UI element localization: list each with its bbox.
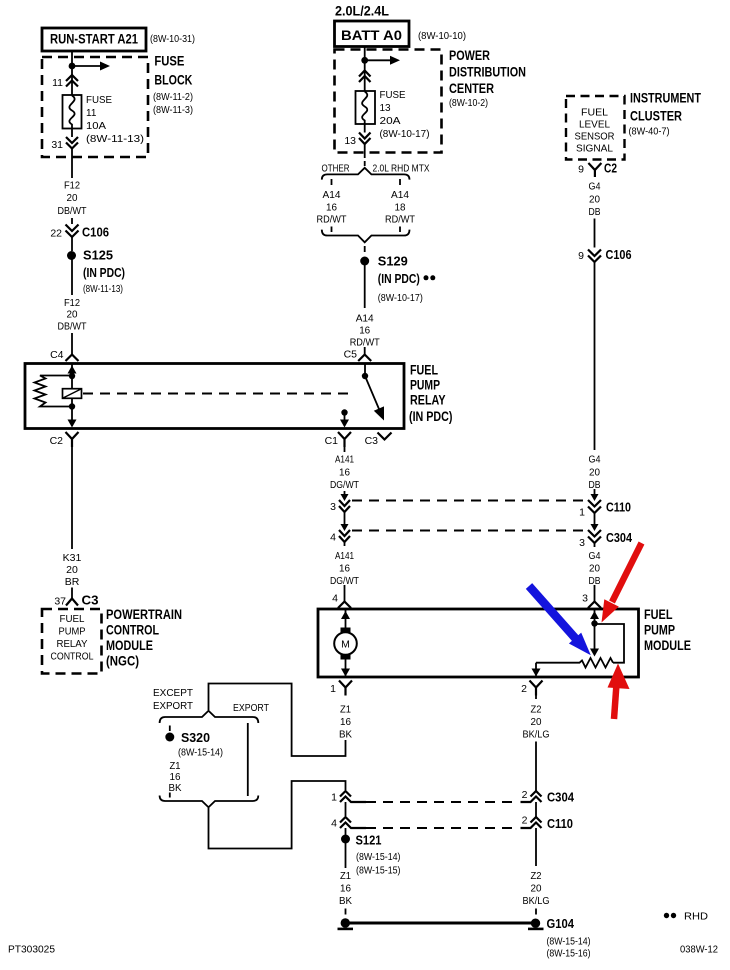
connector C106 chevrons left	[66, 225, 79, 238]
svg-text:RELAY: RELAY	[410, 393, 446, 408]
sensor return arrow down	[532, 663, 541, 677]
splice S320 dot	[165, 733, 174, 742]
label PT303025	[8, 945, 55, 956]
label C106 left	[82, 225, 109, 240]
sensor wiper arrow	[590, 624, 599, 657]
svg-text:MODULE: MODULE	[644, 638, 691, 653]
svg-text:BR: BR	[65, 576, 80, 588]
red annotation arrow to sensor feed	[602, 543, 642, 623]
label G104	[547, 916, 591, 960]
branch dash right lower	[399, 227, 401, 233]
label C2 relay	[50, 435, 64, 447]
relay actuation dashed link	[83, 393, 352, 395]
svg-text:13: 13	[380, 103, 392, 114]
junction dot in fuse block	[69, 63, 76, 70]
arrow feed right PDC	[365, 56, 400, 65]
connector C304 chevrons right	[588, 530, 601, 543]
dashed connector line C304 bottom	[366, 801, 518, 803]
label C2	[604, 161, 617, 176]
wire C1 down	[344, 447, 346, 452]
pin 2 label C110 bottom right	[522, 815, 528, 827]
ground G104 left dot	[338, 918, 354, 929]
relay coil feed arrow up	[68, 364, 77, 375]
wire BATT into PDC	[364, 47, 366, 92]
svg-text:A141: A141	[335, 550, 354, 562]
fuse block dashed box	[42, 57, 148, 157]
relay junction dot bottom	[69, 403, 75, 409]
svg-text:Z1: Z1	[340, 704, 351, 716]
wire fuse to pin 13	[364, 124, 366, 133]
svg-text:10A: 10A	[86, 121, 106, 132]
branch dash left	[331, 179, 333, 185]
svg-text:(IN PDC): (IN PDC)	[83, 265, 125, 280]
svg-text:Z1: Z1	[340, 870, 351, 882]
svg-text:(8W-40-7): (8W-40-7)	[629, 127, 670, 138]
label C5	[344, 349, 358, 361]
wire to C106	[71, 218, 73, 224]
svg-text:(8W-15-14): (8W-15-14)	[547, 937, 591, 948]
svg-text:C110: C110	[606, 500, 631, 515]
svg-text:(8W-15-14): (8W-15-14)	[356, 852, 401, 863]
svg-text:20A: 20A	[380, 116, 401, 127]
svg-text:(IN PDC): (IN PDC)	[378, 271, 420, 286]
connector fork C4	[66, 355, 79, 362]
sensor junction dot	[591, 620, 597, 626]
motor feed arrow	[341, 609, 350, 628]
svg-text:C3: C3	[82, 593, 99, 608]
svg-text:16: 16	[340, 883, 351, 895]
branch dash S320 lower	[169, 793, 171, 798]
pin 9 label C2	[578, 164, 584, 176]
svg-text:20: 20	[67, 192, 78, 204]
dashed connector line C304	[352, 530, 586, 532]
connector fork module pin 4	[338, 602, 351, 609]
svg-text:20: 20	[67, 309, 78, 321]
label EXCEPT EXPORT	[153, 687, 194, 712]
svg-text:FUEL: FUEL	[410, 363, 438, 378]
relay contact C1 dot	[341, 409, 347, 415]
label EXPORT right	[233, 702, 269, 714]
connector chevron C3 open	[378, 433, 392, 440]
wire label G4 20 DB lower	[589, 550, 601, 587]
svg-text:FUEL: FUEL	[644, 607, 673, 622]
svg-text:FUEL: FUEL	[581, 107, 608, 119]
svg-text:G4: G4	[589, 550, 601, 562]
svg-text:C2: C2	[604, 161, 617, 176]
connector C304 chevrons bottom right	[521, 791, 542, 802]
pin 2 label C304 bottom right	[522, 789, 528, 801]
svg-text:18: 18	[395, 202, 406, 214]
label S121	[356, 833, 401, 877]
ground bus wire	[346, 922, 537, 925]
svg-text:16: 16	[340, 716, 351, 728]
connector fork C5	[358, 355, 371, 362]
branch dash S320	[169, 726, 171, 732]
label (8W-10-10)	[418, 31, 466, 42]
svg-text:31: 31	[51, 139, 63, 151]
svg-text:MODULE: MODULE	[106, 638, 153, 653]
wire between C110 C304 left	[341, 512, 349, 531]
label FUEL PUMP RELAY (IN PDC)	[409, 363, 453, 425]
junction dot in PDC	[361, 57, 368, 64]
branch dash left lower	[331, 227, 333, 233]
connector chevrons pin 11	[66, 75, 78, 87]
arrow feed right	[72, 62, 110, 71]
svg-text:4: 4	[330, 532, 336, 544]
svg-text:RD/WT: RD/WT	[350, 337, 380, 349]
svg-text:(IN PDC): (IN PDC)	[409, 409, 453, 424]
label C304 bottom	[547, 790, 575, 805]
PDC dashed box	[335, 50, 442, 153]
export branch wire	[247, 723, 249, 796]
svg-text:RD/WT: RD/WT	[317, 214, 347, 226]
label POWERTRAIN CONTROL MODULE (NGC)	[106, 607, 182, 669]
wire out of fuse block	[71, 149, 73, 179]
connector C110 chevrons left wire	[339, 500, 350, 512]
svg-text:4: 4	[331, 818, 337, 830]
relay resistor zigzag	[35, 376, 73, 407]
connector fork C2 relay	[66, 432, 79, 447]
label C4	[50, 349, 64, 361]
pin 3 label C304	[579, 537, 585, 549]
pin 3 label C110 left	[330, 501, 336, 513]
relay switch blade to C3	[365, 376, 384, 421]
pin 1 label C304 bottom	[331, 792, 337, 804]
connector fork C3 PCM	[66, 599, 78, 606]
svg-text:3: 3	[330, 501, 336, 513]
svg-text:BK/LG: BK/LG	[523, 895, 550, 907]
marker dots RHD legend	[664, 913, 676, 918]
svg-text:POWERTRAIN: POWERTRAIN	[106, 607, 182, 622]
wire module pin2 down	[535, 696, 537, 700]
connector chevrons pin 31	[66, 137, 78, 149]
label C304 mid	[606, 530, 633, 545]
svg-text:S320: S320	[181, 730, 210, 745]
svg-text:K31: K31	[63, 552, 82, 564]
svg-text:G4: G4	[589, 181, 601, 193]
svg-text:BATT A0: BATT A0	[341, 28, 402, 43]
connector chevrons PDC top	[359, 71, 371, 83]
svg-text:11: 11	[86, 108, 97, 119]
svg-text:1: 1	[330, 683, 336, 695]
label C106 right	[606, 247, 632, 262]
svg-text:EXCEPT: EXCEPT	[153, 687, 194, 699]
svg-text:2.0L RHD MTX: 2.0L RHD MTX	[373, 163, 430, 175]
connector fork C2	[588, 163, 601, 177]
svg-text:FUSE: FUSE	[86, 95, 112, 106]
ground dash right	[535, 909, 537, 915]
motor return arrow	[341, 660, 350, 677]
pin 4 label C304 left	[330, 532, 336, 544]
svg-text:LEVEL: LEVEL	[579, 119, 610, 131]
label S129	[378, 254, 423, 305]
wire label Z1 16 BK ground	[339, 870, 352, 907]
ground G104 dot	[528, 919, 544, 929]
svg-text:RELAY: RELAY	[57, 639, 88, 650]
wire label F12 20 DB/WT lower	[58, 297, 88, 333]
svg-text:A141: A141	[335, 454, 354, 466]
connector C106 chevrons right	[588, 250, 601, 263]
fuel pump relay box	[25, 364, 404, 429]
svg-text:BK/LG: BK/LG	[523, 729, 550, 741]
wire label A14 18 RD/WT right branch	[385, 189, 415, 226]
svg-text:FUSE: FUSE	[380, 90, 406, 101]
svg-text:Z2: Z2	[531, 870, 542, 882]
svg-text:CONTROL: CONTROL	[106, 623, 159, 638]
wire S125 down	[71, 256, 73, 295]
splice S125 dot	[67, 251, 76, 260]
wire label K31 20 BR	[63, 552, 82, 588]
svg-text:C1: C1	[325, 435, 339, 447]
svg-text:9: 9	[578, 164, 584, 176]
svg-text:CENTER: CENTER	[449, 81, 494, 96]
svg-text:(8W-10-2): (8W-10-2)	[449, 98, 488, 109]
merge brace export options	[160, 796, 259, 808]
label S320	[178, 730, 223, 759]
wire C110 down to Z2 label	[535, 828, 537, 866]
connector C110 chevrons bottom right	[521, 817, 542, 828]
svg-text:EXPORT: EXPORT	[153, 700, 194, 712]
svg-text:C2: C2	[50, 435, 64, 447]
connector C110 chevrons right	[588, 500, 601, 513]
label C3 relay	[365, 435, 379, 447]
svg-text:1: 1	[331, 792, 337, 804]
relay contact C1 arrow down	[340, 414, 349, 428]
svg-text:(8W-10-17): (8W-10-17)	[380, 129, 430, 140]
wire label Z1 16 BK S320	[169, 760, 182, 794]
wire to C110 right	[591, 489, 599, 501]
svg-text:OTHER: OTHER	[322, 163, 350, 175]
svg-text:37: 37	[54, 596, 66, 608]
label 038W-12	[680, 945, 718, 956]
wire between bottom connectors left	[345, 802, 347, 816]
pin 9 label C106	[578, 250, 584, 262]
sensor loop to resistor right end	[595, 624, 625, 663]
svg-text:Z2: Z2	[531, 704, 542, 716]
pin 2 label module	[521, 683, 527, 695]
svg-text:POWER: POWER	[449, 48, 490, 63]
wire label A14 16 RD/WT to C5	[350, 313, 380, 349]
wire fuse to pin 31	[71, 129, 73, 138]
wire to C4	[71, 333, 73, 355]
svg-text:(8W-11-13): (8W-11-13)	[83, 284, 123, 295]
svg-text:A14: A14	[391, 189, 409, 201]
relay coil wire segments	[71, 377, 73, 407]
svg-text:INSTRUMENT: INSTRUMENT	[630, 91, 702, 106]
splice S129 dot	[360, 257, 369, 266]
svg-text:(8W-11-2): (8W-11-2)	[153, 92, 193, 103]
svg-text:C3: C3	[365, 435, 379, 447]
label 2.0L RHD MTX	[373, 163, 430, 175]
svg-text:SIGNAL: SIGNAL	[576, 143, 613, 155]
svg-text:(8W-15-16): (8W-15-16)	[547, 949, 591, 960]
label FUEL PUMP MODULE	[644, 607, 691, 653]
pin 4 label module	[332, 593, 338, 605]
svg-text:3: 3	[579, 537, 585, 549]
wire dash below merge brace	[364, 246, 366, 252]
dashed connector line C110	[352, 500, 586, 502]
wire S121 to ground label	[345, 843, 347, 868]
wire dash above split brace	[364, 161, 366, 166]
svg-text:13: 13	[344, 135, 356, 147]
dashed connector line C110 bottom	[366, 827, 518, 829]
fuse F11 labels	[86, 95, 144, 145]
svg-text:(8W-10-10): (8W-10-10)	[418, 31, 466, 42]
wire to C3 PCM	[71, 588, 73, 599]
svg-text:DB/WT: DB/WT	[58, 205, 88, 217]
pin 22 label	[50, 228, 62, 240]
svg-text:1: 1	[579, 507, 585, 519]
svg-text:C304: C304	[606, 530, 633, 545]
svg-text:(8W-15-14): (8W-15-14)	[178, 748, 223, 759]
svg-text:BK: BK	[339, 729, 352, 741]
svg-text:DISTRIBUTION: DISTRIBUTION	[449, 65, 526, 80]
svg-text:11: 11	[52, 77, 63, 89]
relay coil ground arrow down	[68, 408, 77, 428]
svg-text:BLOCK: BLOCK	[154, 73, 192, 88]
svg-text:038W-12: 038W-12	[680, 945, 718, 956]
label RHD	[684, 911, 708, 923]
svg-text:DB/WT: DB/WT	[58, 321, 88, 333]
svg-text:20: 20	[531, 716, 542, 728]
svg-text:RD/WT: RD/WT	[385, 214, 415, 226]
svg-text:2: 2	[522, 815, 528, 827]
pin 1 label module	[330, 683, 336, 695]
svg-text:20: 20	[589, 563, 600, 575]
connector fork module pin 3	[588, 602, 601, 609]
connector fork module pin 1	[339, 681, 352, 696]
svg-text:A14: A14	[323, 189, 341, 201]
svg-text:22: 22	[50, 228, 62, 240]
svg-text:PUMP: PUMP	[410, 378, 440, 393]
label FUEL PUMP RELAY CONTROL	[51, 614, 94, 663]
node BATT A0 box	[335, 21, 410, 47]
svg-text:4: 4	[332, 593, 338, 605]
wire relay C2 to K31	[71, 447, 73, 549]
svg-text:RHD: RHD	[684, 911, 708, 923]
pin 37 label	[54, 596, 66, 608]
svg-text:BK: BK	[169, 782, 182, 794]
pin 11 label	[52, 77, 63, 89]
label INSTRUMENT CLUSTER	[629, 91, 702, 138]
red annotation arrow to resistor	[608, 664, 630, 720]
split brace OTHER / 2.0L RHD MTX	[322, 168, 410, 180]
connector C304 chevrons left wire	[339, 530, 350, 542]
relay coil rectangle	[63, 389, 82, 399]
svg-text:FUEL: FUEL	[60, 614, 85, 625]
svg-text:PUMP: PUMP	[59, 627, 86, 638]
svg-text:(8W-10-17): (8W-10-17)	[378, 293, 423, 304]
svg-text:(8W-10-31): (8W-10-31)	[150, 34, 195, 45]
split brace export options	[160, 711, 259, 723]
connector chevrons pin 13	[359, 133, 371, 145]
wire pin1 detour to split brace	[209, 684, 346, 757]
svg-text:2: 2	[522, 789, 528, 801]
ground dash left	[345, 909, 347, 915]
svg-text:20: 20	[589, 194, 600, 206]
pin 4 label C110 bottom	[331, 818, 337, 830]
wire to module pin 4	[344, 585, 346, 602]
fuel pump module box	[318, 609, 639, 677]
svg-text:16: 16	[326, 202, 337, 214]
svg-text:BK: BK	[339, 895, 352, 907]
wire label Z2 20 BK/LG lower	[523, 870, 550, 907]
svg-text:S125: S125	[83, 248, 113, 263]
branch dash right	[399, 179, 401, 185]
connector C110 chevrons bottom left	[340, 817, 366, 828]
splice S121 dot	[341, 835, 350, 844]
marker dots RHD at S129	[424, 275, 436, 280]
relay switch common dot C5	[362, 364, 368, 380]
svg-text:FUSE: FUSE	[154, 54, 184, 69]
label POWER DISTRIBUTION CENTER	[449, 48, 526, 109]
wire label Z2 20 BK/LG upper	[523, 704, 550, 741]
wire out of PDC	[364, 144, 366, 158]
motor M1 fuel pump	[334, 628, 357, 660]
fuel level sensor resistor zigzag	[536, 658, 613, 668]
svg-text:9: 9	[578, 250, 584, 262]
blue annotation arrow to wiper	[529, 586, 591, 655]
svg-text:20: 20	[589, 467, 600, 479]
merge brace to S129	[322, 230, 410, 243]
wire between bottom connectors right	[535, 802, 537, 817]
svg-text:(8W-15-15): (8W-15-15)	[356, 866, 401, 877]
svg-text:(8W-11-3): (8W-11-3)	[153, 105, 193, 116]
label (8W-10-31)	[150, 34, 195, 45]
svg-text:16: 16	[359, 325, 370, 337]
wire C106 to S125	[71, 237, 73, 251]
wire label Z1 16 BK pin1	[339, 704, 352, 741]
svg-text:F12: F12	[64, 180, 80, 192]
svg-text:2: 2	[521, 683, 527, 695]
svg-text:C106: C106	[82, 225, 109, 240]
svg-text:C110: C110	[547, 816, 573, 831]
svg-text:16: 16	[339, 467, 350, 479]
label C110 bottom	[547, 816, 573, 831]
label C110 mid	[606, 500, 631, 515]
svg-text:EXPORT: EXPORT	[233, 702, 269, 714]
connector fork C1 relay	[338, 432, 351, 447]
wire C110 to C304 right	[591, 513, 599, 531]
wire to module pin 3	[594, 543, 596, 602]
svg-text:M: M	[341, 639, 350, 651]
svg-text:20: 20	[66, 564, 78, 576]
pin 13 label	[344, 135, 356, 147]
wire to S121	[345, 828, 347, 835]
svg-text:RUN-START A21: RUN-START A21	[50, 32, 138, 47]
connector C304 chevrons bottom left	[340, 791, 366, 802]
label 2.0L/2.4L	[335, 4, 389, 19]
svg-text:PT303025: PT303025	[8, 945, 55, 956]
node RUN-START A21 box	[42, 28, 146, 51]
svg-text:S129: S129	[378, 254, 408, 269]
wire label A14 16 RD/WT left branch	[317, 189, 347, 226]
wire label G4 20 DB mid	[589, 454, 601, 492]
wire to C5	[364, 347, 366, 355]
svg-text:20: 20	[531, 883, 542, 895]
svg-text:DG/WT: DG/WT	[330, 479, 359, 491]
svg-text:3: 3	[582, 593, 588, 605]
wire merge to connector 1	[209, 781, 346, 849]
wire label G4 20 DB cluster	[589, 181, 601, 219]
wire label A141 16 DG/WT upper	[330, 454, 359, 492]
svg-text:G4: G4	[589, 454, 601, 466]
connector fork module pin 2	[530, 681, 543, 696]
relay junction dot top	[69, 373, 75, 379]
instrument cluster dashed box	[566, 96, 625, 160]
wire into C110 left	[341, 491, 349, 501]
label FUSE BLOCK	[153, 54, 193, 117]
